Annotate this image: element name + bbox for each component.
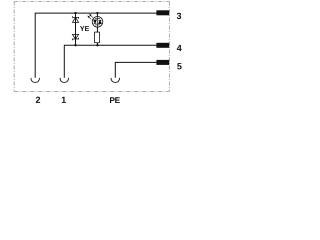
label 3 — [177, 13, 181, 19]
pin 3 (flat connector pin) — [156, 10, 169, 15]
junction dot top of suppressor branch — [74, 12, 76, 14]
wire: suppressor branch — [75, 13, 77, 45]
wire: PE rail net 5 — [115, 62, 156, 77]
wire: resistor to mid rail — [96, 43, 98, 46]
terminal socket PE — [111, 78, 120, 83]
junction dot resistor to mid rail — [96, 44, 98, 46]
label YE — [80, 26, 89, 31]
terminal socket 1 — [60, 78, 69, 83]
label 1 — [62, 97, 66, 103]
zener diode Z2 (cathode down) — [72, 34, 78, 40]
label 5 — [177, 63, 181, 69]
label 2 — [36, 97, 40, 103]
wire: top rail net 3 — [35, 13, 156, 78]
junction dot top of LED branch — [96, 12, 98, 14]
wire: mid rail net 4 — [64, 45, 156, 78]
junction dot bottom of suppressor branch — [74, 44, 76, 46]
wire through LED body — [96, 17, 98, 28]
LED internal diodes — [94, 19, 102, 25]
wire: LED to resistor — [96, 27, 98, 32]
label 4 — [177, 45, 182, 51]
connector housing outline (dash-dot frame) — [14, 1, 169, 91]
LED emission arrows — [88, 14, 93, 19]
zener diode Z1 (cathode up) — [72, 16, 78, 22]
LED U1 (dual anti-parallel) body — [92, 17, 103, 28]
wire: LED branch — [96, 13, 98, 16]
pin 4 (flat connector pin) — [156, 43, 169, 48]
label PE — [110, 97, 120, 103]
resistor R1 — [95, 32, 100, 43]
terminal socket 2 — [31, 78, 40, 83]
pin 5 (flat connector pin) — [156, 60, 169, 65]
